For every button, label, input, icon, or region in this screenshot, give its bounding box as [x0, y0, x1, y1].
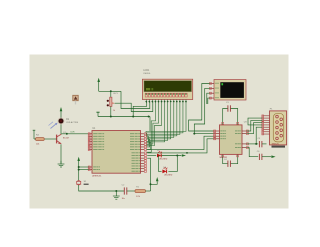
U1 left pins group2: [89, 166, 92, 168]
DB9 connector body: [270, 111, 287, 145]
junction + ground on reset rail: [115, 190, 117, 192]
svg-text:LM016L: LM016L: [143, 73, 151, 75]
MAX232 left pins: [214, 130, 220, 132]
LDR D1 light arrow: [51, 124, 57, 129]
horizontal ground bus: [98, 116, 150, 118]
capacitor C5: [258, 141, 260, 147]
svg-text:10u: 10u: [122, 198, 125, 200]
RV1 terminal dots: [107, 100, 109, 102]
capacitor C2: [123, 187, 125, 194]
schematic canvas background: [30, 55, 289, 209]
MAX232 right pins upper: [242, 130, 247, 132]
MAX232 top capacitor C3 wires: [223, 109, 228, 125]
wire C2 to R1: [127, 190, 135, 192]
wire MAX VS- to cap C6: [247, 148, 259, 157]
MAX232 right pins lower: [242, 143, 247, 145]
LDR D1 sensor circle: [58, 118, 64, 124]
wire button to reset rail: [79, 185, 125, 191]
signal arrow right (LED row): [182, 154, 186, 157]
capacitor C6: [258, 154, 260, 160]
wire RV1 wiper to LCD VEE: [115, 102, 153, 112]
wire terminal CTS stub: [208, 98, 210, 104]
svg-text:1k: 1k: [113, 110, 115, 112]
U1 right pins group2: [141, 152, 145, 154]
DB9 pin circles: [276, 115, 279, 118]
svg-text:LED-RED: LED-RED: [159, 158, 168, 160]
wires +5V to U1 RST/EA pins: [79, 166, 89, 168]
U1 left pins group1: [89, 133, 92, 135]
wire LCD VSS to bus: [133, 102, 147, 117]
wire +5V branch to LCD VDD (staircase): [121, 91, 150, 108]
wire serial line B: [147, 139, 214, 153]
wire junction to +5V arrow: [151, 181, 158, 184]
wire pot top: [110, 91, 112, 97]
LCD pin header boxes: [145, 93, 147, 97]
capacitor C3: [227, 105, 229, 111]
LED D3: [162, 170, 166, 174]
wire terminal RXD: [189, 84, 214, 132]
ground (transistor emitter): [60, 161, 62, 164]
LCD data bus bundle wires: [146, 102, 186, 134]
MAX232 bottom capacitor C4 wires: [223, 154, 228, 163]
wire base resistor to transistor: [44, 138, 56, 140]
RST vertical wire: [147, 158, 150, 191]
virtual terminal screen: [220, 82, 244, 98]
wire MAX VS+ to cap C5: [247, 143, 259, 145]
MCU U1 body AT89C51: [92, 131, 141, 174]
wire DB9 pin6 to C5 node: [256, 127, 262, 144]
wire C5 right: [262, 143, 267, 145]
bus left terminal mark: [97, 112, 99, 116]
wire +5V to pot top node: [99, 90, 121, 92]
virtual terminal body: [214, 80, 246, 101]
power terminal +5V (reset branch): [77, 157, 80, 161]
LCD LM016L body: [142, 79, 192, 99]
svg-text:8.2k: 8.2k: [136, 196, 140, 198]
wire LED D3 loop: [159, 156, 162, 172]
wire R1 to RST vertical: [146, 190, 151, 192]
wire MAX T1OUT to DB9: [247, 120, 263, 131]
power terminal +5V (RST pullup): [156, 177, 159, 181]
wire C6 to power arrow: [262, 156, 271, 158]
wire serial line A: [147, 136, 214, 149]
sounder LS1 body: [73, 95, 78, 100]
wire collector node to U1 pin: [66, 133, 68, 135]
svg-text:MAX232: MAX232: [220, 156, 229, 159]
wire LED D2 to arrow: [162, 155, 182, 157]
wire LDR to transistor collector: [60, 124, 62, 134]
resistor R4: [36, 138, 45, 141]
MAX232 U3 body: [220, 125, 243, 154]
push button S1: [77, 181, 81, 185]
wire LED row: [147, 155, 156, 157]
wire bus to U1 pin row: [149, 117, 151, 132]
svg-text:BC107: BC107: [63, 138, 70, 140]
wire MAX R1IN to DB9: [247, 123, 263, 134]
svg-text:10k: 10k: [36, 144, 39, 146]
wire terminal TXD: [194, 88, 214, 133]
power terminal right (C6): [271, 155, 275, 158]
svg-text:ERROR: ERROR: [272, 144, 279, 146]
terminal pins: [210, 83, 214, 85]
wire terminal RTS stub: [207, 93, 210, 104]
potentiometer RV1 body: [110, 97, 112, 106]
LED D2: [157, 154, 161, 158]
capacitor C4: [227, 161, 229, 167]
terminal cursor: [221, 83, 223, 85]
LCD RS RW E wires: [146, 102, 155, 143]
svg-text:LCD1: LCD1: [143, 70, 150, 72]
wire DB9 pin5 loop: [248, 118, 262, 125]
power terminal +5V (LDR branch): [60, 107, 63, 111]
wire pot bottom to bus: [110, 106, 112, 116]
svg-text:AT89C51: AT89C51: [92, 174, 102, 177]
LCD data pin stubs: [145, 100, 147, 103]
resistor R1: [135, 190, 146, 193]
svg-text:LDR-ACTIVE: LDR-ACTIVE: [66, 121, 79, 124]
wire transistor emitter to ground: [60, 144, 62, 164]
DB9 shell: [273, 113, 283, 142]
DB9 left pins: [262, 115, 269, 117]
svg-text:LDR: LDR: [71, 132, 76, 134]
sounder pin: [75, 101, 77, 105]
svg-text:LED-RED: LED-RED: [164, 175, 173, 177]
transistor Q1 NPN: [56, 135, 58, 144]
input terminal left of R4: [33, 130, 35, 139]
RV1 wiper arrow: [112, 102, 115, 105]
LCD screen pixels: [146, 88, 150, 90]
LCD pin number labels: [146, 101, 148, 102]
power terminal +5V (pot branch): [97, 78, 100, 82]
U1 right pins group1: [141, 133, 145, 135]
